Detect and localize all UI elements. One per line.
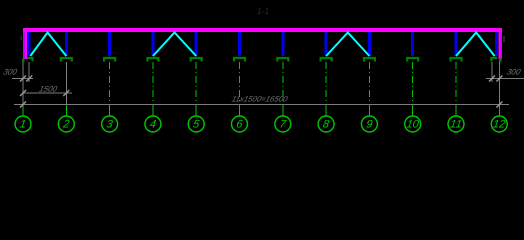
svg-text:12: 12 [492, 119, 506, 131]
svg-text:1500: 1500 [38, 85, 59, 94]
svg-text:11: 11 [449, 119, 462, 131]
svg-text:11x1500=16500: 11x1500=16500 [231, 95, 289, 104]
svg-text:1-1: 1-1 [257, 6, 270, 16]
